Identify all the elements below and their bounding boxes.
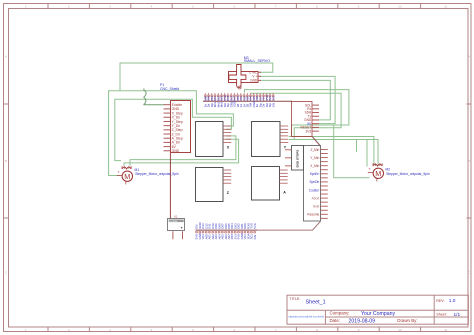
svg-text:A: A <box>468 54 470 58</box>
svg-text:Resume: Resume <box>307 212 319 216</box>
svg-text:REV:: REV: <box>436 299 444 303</box>
svg-text:B: B <box>468 159 470 163</box>
svg-text:11: 11 <box>444 5 447 9</box>
svg-text:M: M <box>375 169 381 178</box>
svg-text:Stepper_Motor_unipolar_5pin: Stepper_Motor_unipolar_5pin <box>135 172 179 176</box>
svg-text:Y_Min: Y_Min <box>310 156 319 160</box>
svg-text:Abort: Abort <box>312 196 320 200</box>
svg-text:Sheet_1: Sheet_1 <box>306 300 326 306</box>
svg-text:SMALL_SERVO: SMALL_SERVO <box>244 59 271 63</box>
svg-text:2019-08-09: 2019-08-09 <box>349 318 376 324</box>
svg-text:easyeda com-profjrdnl-cnc-shie: easyeda com-profjrdnl-cnc-shield <box>289 316 325 319</box>
svg-text:C: C <box>468 271 470 275</box>
svg-text:M2: M2 <box>385 167 390 171</box>
svg-text:1.0: 1.0 <box>449 298 456 304</box>
svg-text:Hold: Hold <box>313 204 320 208</box>
svg-text:GND: GND <box>250 79 258 83</box>
svg-text:5V0: 5V0 <box>253 223 257 229</box>
svg-text:GN: GN <box>271 103 275 107</box>
svg-text:Company:: Company: <box>330 311 350 316</box>
svg-text:Z_Min: Z_Min <box>310 148 319 152</box>
svg-text:GN: GN <box>253 235 257 239</box>
svg-text:3V3: 3V3 <box>306 129 312 133</box>
svg-text:Drawn By:: Drawn By: <box>397 318 417 323</box>
svg-text:10: 10 <box>398 5 402 9</box>
svg-text:M: M <box>124 172 130 181</box>
svg-text:TITLE:: TITLE: <box>290 297 301 301</box>
svg-text:Your Company: Your Company <box>361 311 396 317</box>
svg-text:*: * <box>369 167 371 172</box>
svg-text:M1: M1 <box>135 168 140 172</box>
svg-text:Stepper_Motor_unipolar_5pin: Stepper_Motor_unipolar_5pin <box>386 172 430 176</box>
svg-text:END STOPS: END STOPS <box>296 150 300 168</box>
svg-text:GND: GND <box>172 149 180 153</box>
svg-text:A: A <box>5 54 7 58</box>
svg-text:SpnDir: SpnDir <box>310 180 321 184</box>
svg-text:*: * <box>118 170 120 175</box>
svg-text:C: C <box>5 271 7 275</box>
svg-text:CNC_Shield: CNC_Shield <box>160 87 179 91</box>
svg-text:SpnEn: SpnEn <box>310 172 320 176</box>
svg-text:B: B <box>5 159 7 163</box>
svg-text:Sheet:: Sheet: <box>436 313 446 317</box>
svg-text:Date:: Date: <box>330 318 341 323</box>
svg-text:3V3: 3V3 <box>271 96 275 101</box>
svg-text:10: 10 <box>398 328 402 332</box>
svg-text:U1: U1 <box>174 214 178 218</box>
svg-text:X_Min: X_Min <box>310 164 319 168</box>
svg-text:1/1: 1/1 <box>454 312 461 318</box>
svg-text:LD 3MM: LD 3MM <box>169 221 177 223</box>
svg-text:11: 11 <box>444 328 447 332</box>
svg-text:A: A <box>283 191 286 195</box>
svg-text:CoolEn: CoolEn <box>309 188 320 192</box>
